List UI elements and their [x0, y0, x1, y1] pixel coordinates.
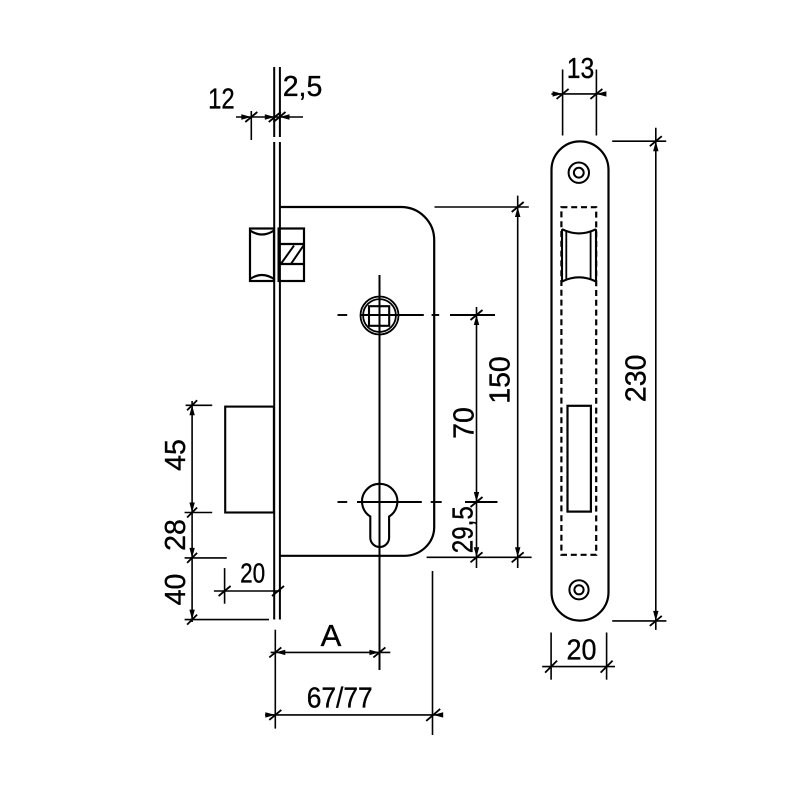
ticks dimension 12 / 2,5	[245, 112, 257, 122]
svg-text:13: 13	[567, 53, 595, 85]
svg-text:2,5: 2,5	[283, 71, 323, 103]
bottom screw hole	[569, 580, 588, 599]
faceplate edge-on (double line)	[274, 142, 280, 620]
pocket rectangle (45 reference box)	[225, 407, 274, 513]
dimension 150 line	[517, 196, 519, 568]
euro profile cylinder hole	[362, 484, 397, 547]
dimension 13 line	[551, 93, 604, 95]
latch bolt front view (spool)	[562, 229, 596, 281]
svg-text:67/77: 67/77	[307, 683, 373, 715]
dimension 12 line	[236, 116, 303, 118]
arrows dim 13	[553, 91, 563, 96]
left chain dimension line (45/28/40)	[191, 401, 193, 622]
dashed lock case rectangle	[561, 207, 596, 555]
arrowheads	[189, 91, 658, 717]
dimension 20 left: extension	[224, 568, 226, 604]
ticks 150	[512, 202, 524, 212]
arrows 150	[515, 207, 520, 217]
svg-text:45: 45	[160, 439, 192, 471]
ticks 230	[650, 136, 662, 146]
dimension A: line	[271, 651, 391, 653]
svg-text:20: 20	[240, 558, 265, 589]
lower slot in faceplate	[568, 406, 591, 512]
svg-text:28: 28	[160, 519, 192, 551]
cylinder horizontal centerline (dash-dot)	[338, 501, 498, 503]
faceplate extension lines up to 2,5 dimension	[274, 67, 280, 137]
faceplate front outline (stadium)	[552, 141, 609, 620]
extension body top to 150	[435, 206, 529, 208]
dimension 230: line	[655, 128, 657, 630]
svg-text:230: 230	[621, 355, 653, 403]
ticks 20 right	[545, 661, 557, 673]
svg-text:20: 20	[567, 635, 597, 667]
svg-text:12: 12	[208, 84, 235, 116]
ticks 20 left	[219, 586, 231, 596]
spindle horizontal centerline (dash-dot)	[338, 314, 496, 316]
dimension 12 extension	[250, 111, 252, 140]
arrows 230	[653, 141, 658, 151]
ticks dimension 13	[557, 89, 569, 99]
tick slashes	[187, 89, 662, 721]
vertical centerline through spindle and cylinder	[379, 275, 381, 670]
dimension 20 left: line	[214, 590, 281, 592]
arrows dim 12 / 2,5	[241, 114, 251, 119]
arrows right chain	[474, 315, 479, 325]
latch bolt tail (inside case) with hatch	[279, 229, 304, 282]
right chain dim line 70 / 29,5	[476, 307, 478, 568]
arrows left chain	[189, 405, 194, 415]
svg-text:70: 70	[449, 407, 481, 439]
chain extension y=557.9	[185, 557, 227, 559]
arrows A	[275, 650, 285, 655]
ticks A	[269, 647, 281, 657]
dimension 13 extensions	[562, 70, 564, 136]
dimension A: extension vertical	[274, 630, 276, 729]
chain extension y=405.3	[186, 404, 213, 406]
svg-text:A: A	[321, 618, 342, 653]
spindle follower hole (square in double circle)	[361, 297, 399, 335]
arrows 67/77	[265, 712, 275, 717]
dimension 230: extensions	[612, 140, 666, 142]
dimension 67/77: right extension	[432, 571, 434, 735]
latch bolt head (protruding)	[250, 229, 274, 282]
svg-text:40: 40	[160, 574, 192, 606]
top screw hole	[569, 163, 589, 183]
ticks right chain 70 / 29,5	[471, 310, 483, 320]
chain extension y=619.6	[185, 619, 269, 621]
chain extension y=512.5	[185, 512, 213, 514]
ticks left chain	[187, 400, 197, 410]
lock body outline	[280, 207, 435, 556]
dimension 20 right: extensions	[550, 633, 552, 680]
ticks 67/77	[269, 710, 281, 720]
dimension 67/77: line	[265, 714, 439, 716]
svg-text:29,5: 29,5	[448, 506, 480, 553]
extension y=557.3 for 29,5 and 150	[427, 556, 532, 558]
dimension 20 right: line	[542, 666, 615, 668]
svg-text:150: 150	[485, 356, 517, 404]
